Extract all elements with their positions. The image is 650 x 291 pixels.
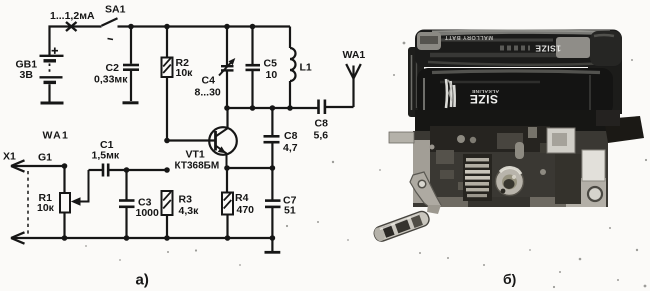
svg-text:3В: 3В xyxy=(20,69,34,81)
variable capacitor C4 xyxy=(219,27,235,109)
photo: bottom battery xyxy=(417,68,613,116)
resistor R3 xyxy=(162,191,173,238)
capacitor C8 5,6 (antenna coupling) xyxy=(319,100,354,115)
svg-text:X1: X1 xyxy=(3,151,16,163)
emitter wire xyxy=(224,165,275,171)
photo: top battery xyxy=(415,30,622,68)
capacitor C7 xyxy=(265,168,281,238)
label C2 0,33mk xyxy=(94,62,128,86)
svg-text:КТ368БМ: КТ368БМ xyxy=(175,161,220,172)
label G1 xyxy=(38,152,52,164)
capacitor C1 xyxy=(89,164,168,177)
svg-text:б): б) xyxy=(503,271,516,287)
svg-text:SIZE: SIZE xyxy=(469,92,498,106)
capacitor C3 xyxy=(119,167,135,238)
junction dots on bottom rail xyxy=(62,235,276,241)
label R1 10k xyxy=(37,192,55,214)
collector rail (second rail) xyxy=(227,107,318,109)
svg-text:WA1: WA1 xyxy=(43,130,70,142)
svg-text:51: 51 xyxy=(284,205,296,217)
svg-text:R4: R4 xyxy=(235,192,249,204)
svg-text:0,33мк: 0,33мк xyxy=(94,74,128,86)
svg-text:VT1: VT1 xyxy=(186,149,205,161)
svg-text:а): а) xyxy=(136,272,149,289)
capacitor C8 4,7 xyxy=(264,108,280,168)
capacitor C2 xyxy=(123,27,140,103)
top rail wire xyxy=(118,25,291,27)
label L1 xyxy=(300,62,312,74)
svg-text:MALLORY BATT: MALLORY BATT xyxy=(444,34,493,40)
svg-text:WA1: WA1 xyxy=(343,49,366,61)
scan noise specks xyxy=(85,42,647,289)
label b) xyxy=(503,271,516,287)
base wire xyxy=(164,138,215,144)
svg-text:1000: 1000 xyxy=(136,207,160,219)
label 1...1,2mA xyxy=(50,10,95,22)
label VT1 KT368BM xyxy=(175,149,220,172)
svg-text:10к: 10к xyxy=(176,67,194,79)
label C7 51 xyxy=(283,195,297,217)
svg-text:C5: C5 xyxy=(264,58,278,70)
svg-text:470: 470 xyxy=(237,204,255,216)
inductor L1 xyxy=(290,27,296,109)
bottom rail wire xyxy=(11,232,272,243)
svg-text:10: 10 xyxy=(266,69,278,81)
photo: board left tab xyxy=(389,132,414,143)
battery GB1 xyxy=(40,48,64,104)
photo: dark gap below batteries xyxy=(415,110,615,136)
label R2 10k xyxy=(176,57,194,79)
label C8 4,7 xyxy=(283,130,298,154)
label a) xyxy=(136,272,149,289)
photo: jack plug xyxy=(372,210,431,244)
svg-text:L1: L1 xyxy=(300,62,312,74)
label R3 4,3k xyxy=(179,194,200,218)
svg-text:4,7: 4,7 xyxy=(283,142,298,154)
label C3 1000 xyxy=(136,197,160,220)
svg-text:10к: 10к xyxy=(37,202,55,214)
label WA1 (antenna) xyxy=(343,49,366,61)
svg-text:5,6: 5,6 xyxy=(314,130,329,142)
svg-text:G1: G1 xyxy=(38,152,52,164)
label C1 1,5mk xyxy=(92,139,120,162)
resistor R2 xyxy=(162,27,173,141)
label WA1 (cable) xyxy=(43,130,70,142)
svg-text:C2: C2 xyxy=(106,62,120,74)
photo: battery holder dark mass xyxy=(408,42,622,117)
photo: circuit board xyxy=(413,126,608,207)
label SA1 xyxy=(105,4,126,16)
ground xyxy=(265,238,281,252)
measuring point X (current test cross) xyxy=(66,22,77,31)
transistor VT1 xyxy=(209,108,237,168)
svg-text:4,3к: 4,3к xyxy=(179,205,200,217)
photo: output cable right xyxy=(596,110,644,143)
label C8 5,6 xyxy=(314,118,329,142)
node C1/R3 junction xyxy=(164,167,170,173)
dashed connector line X1 xyxy=(27,171,29,236)
label X1 xyxy=(3,151,16,163)
photo: metal bracket xyxy=(410,172,441,214)
wire battery-to-switch top xyxy=(50,27,102,57)
svg-text:R3: R3 xyxy=(179,194,193,206)
antenna WA1 xyxy=(346,64,361,107)
label C4 8...30 xyxy=(195,75,221,99)
label R4 470 xyxy=(235,192,254,216)
resistor R4 xyxy=(222,168,233,238)
switch SA1 lever xyxy=(102,18,118,39)
svg-text:C4: C4 xyxy=(202,75,216,87)
junction dots on second rail xyxy=(224,105,293,111)
svg-text:1SIZE: 1SIZE xyxy=(535,44,561,54)
label C5 10 xyxy=(264,58,278,82)
terminal X1 arrow top (G1 wire) xyxy=(11,160,67,193)
svg-text:8...30: 8...30 xyxy=(195,87,221,99)
svg-text:C8: C8 xyxy=(284,130,298,142)
svg-text:1,5мк: 1,5мк xyxy=(92,150,120,162)
potentiometer R1 xyxy=(60,170,89,238)
junction dots on top rail xyxy=(128,24,255,30)
svg-text:C8: C8 xyxy=(315,118,329,130)
photo: components on board xyxy=(430,127,606,204)
label GB1 3V xyxy=(16,59,38,82)
svg-text:ALKALINE: ALKALINE xyxy=(471,88,499,94)
capacitor C5 xyxy=(246,27,261,109)
svg-text:SA1: SA1 xyxy=(105,4,126,16)
svg-text:1...1,2мА: 1...1,2мА xyxy=(50,10,95,22)
